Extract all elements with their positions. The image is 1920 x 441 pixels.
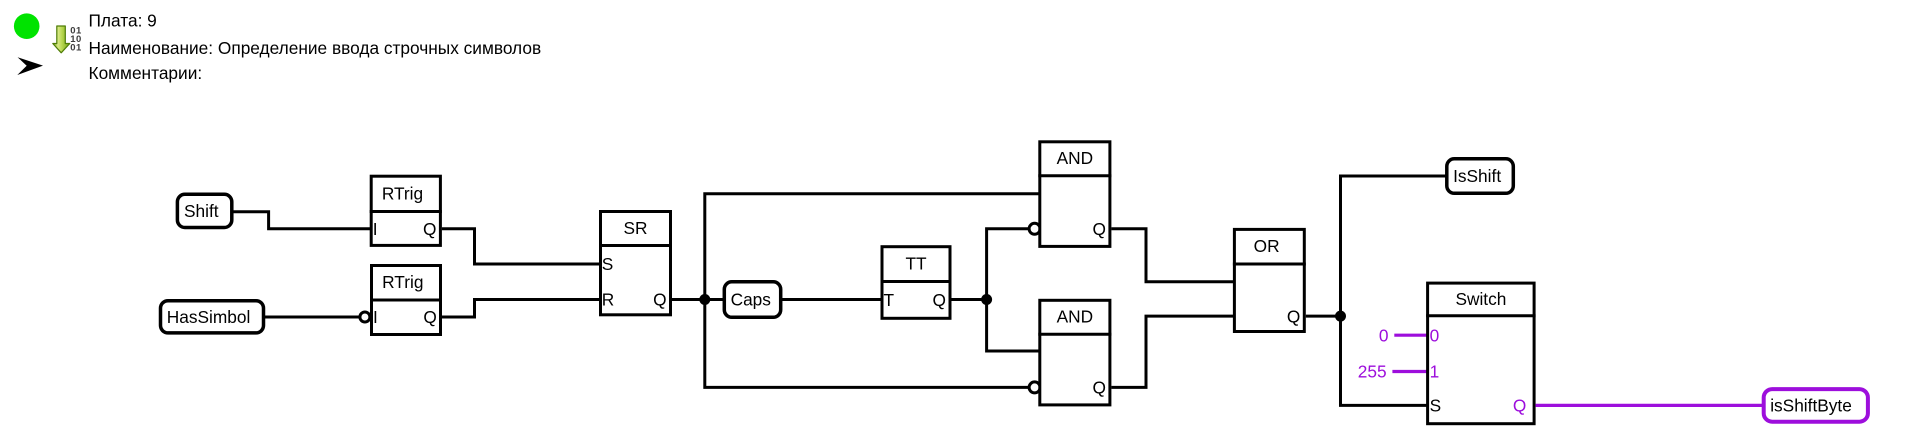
- block RTrig U1: [370, 176, 442, 245]
- svg-text:Q: Q: [1093, 219, 1106, 239]
- svg-text:R: R: [602, 290, 614, 310]
- svg-text:T: T: [884, 290, 895, 310]
- block RTrig U2: [370, 266, 442, 335]
- wire RTrig1 Q to SR S: [442, 229, 600, 264]
- wire constant 0 to Switch pin 0: [1394, 334, 1427, 337]
- block Switch U8: [1426, 283, 1536, 424]
- svg-text:255: 255: [1358, 362, 1387, 382]
- block TT U4: [881, 247, 952, 319]
- wire AND2 Q to OR input 2: [1111, 316, 1234, 387]
- node C junction dot: [1335, 311, 1346, 322]
- svg-text:OR: OR: [1254, 236, 1280, 256]
- svg-text:HasSimbol: HasSimbol: [167, 307, 251, 327]
- svg-text:RTrig: RTrig: [382, 272, 423, 292]
- wire Switch Q to isShiftByte: [1536, 404, 1764, 407]
- svg-text:S: S: [1430, 396, 1442, 416]
- download-bits icon binary digits: [70, 26, 82, 54]
- block OR U7: [1233, 229, 1306, 331]
- wire node C down to Switch S: [1341, 316, 1428, 405]
- wire constant 255 to Switch pin 1: [1392, 370, 1427, 373]
- svg-text:Q: Q: [1287, 306, 1300, 326]
- wire node B down to AND2 input 1: [987, 300, 1040, 352]
- block AND U6: [1038, 300, 1111, 405]
- node A junction dot: [699, 294, 710, 305]
- output label isShiftByte: [1764, 389, 1868, 422]
- svg-text:01: 01: [70, 43, 82, 54]
- svg-text:TT: TT: [905, 254, 927, 274]
- svg-text:SR: SR: [623, 218, 647, 238]
- svg-text:Q: Q: [423, 219, 436, 239]
- wire TT Q to node B: [950, 298, 987, 301]
- inverter bubble at RTrig2 I: [360, 312, 370, 322]
- svg-text:1: 1: [1430, 362, 1440, 382]
- svg-text:S: S: [602, 254, 614, 274]
- block AND U5: [1038, 142, 1111, 247]
- status indicator green circle: [14, 13, 40, 39]
- svg-text:AND: AND: [1057, 148, 1094, 168]
- node B junction dot: [981, 294, 992, 305]
- label Caps: [724, 282, 780, 318]
- wire node B up to inverter at AND1 input 2: [987, 229, 1030, 300]
- svg-text:isShiftByte: isShiftByte: [1770, 396, 1852, 416]
- output label IsShift: [1447, 159, 1514, 194]
- svg-text:RTrig: RTrig: [382, 183, 423, 203]
- input label Shift: [177, 194, 231, 227]
- svg-text:Комментарии:: Комментарии:: [89, 63, 203, 83]
- wire node A to Caps: [705, 298, 724, 301]
- svg-text:IsShift: IsShift: [1453, 166, 1501, 186]
- svg-text:Q: Q: [1513, 396, 1526, 416]
- run cursor black arrow: [17, 57, 43, 75]
- wire OR Q to node C: [1306, 315, 1341, 318]
- wire HasSimbol to inverter at RTrig2 I: [264, 316, 360, 319]
- inverter bubble at AND2 input 2: [1029, 382, 1040, 393]
- wire Shift to RTrig1 I: [233, 212, 371, 229]
- wire node C up to IsShift: [1341, 176, 1447, 316]
- wire Caps to TT T: [781, 298, 881, 301]
- wire SR Q to node A: [672, 298, 705, 301]
- svg-text:I: I: [373, 307, 378, 327]
- svg-text:Q: Q: [933, 290, 946, 310]
- svg-text:Caps: Caps: [731, 290, 772, 310]
- wire AND1 Q to OR input 1: [1111, 229, 1234, 282]
- svg-text:Наименование: Определение ввод: Наименование: Определение ввода строчных…: [89, 38, 542, 58]
- svg-text:Switch: Switch: [1455, 289, 1506, 309]
- svg-text:Q: Q: [423, 307, 436, 327]
- svg-text:Shift: Shift: [184, 201, 219, 221]
- input label HasSimbol: [161, 301, 264, 333]
- wire RTrig2 Q to SR R: [442, 300, 600, 318]
- download-bits icon green arrow: [53, 26, 70, 53]
- svg-text:AND: AND: [1057, 307, 1094, 327]
- wire node A up to AND1 input 1: [705, 194, 1040, 300]
- svg-text:0: 0: [1430, 325, 1440, 345]
- svg-text:I: I: [373, 219, 378, 239]
- svg-text:Q: Q: [653, 290, 666, 310]
- svg-text:Q: Q: [1093, 378, 1106, 398]
- block SR U3: [599, 212, 672, 315]
- svg-text:0: 0: [1379, 325, 1389, 345]
- svg-text:Плата: 9: Плата: 9: [89, 10, 157, 30]
- wire node A down to inverter at AND2 input 2: [705, 300, 1029, 388]
- inverter bubble at AND1 input 2: [1029, 223, 1040, 234]
